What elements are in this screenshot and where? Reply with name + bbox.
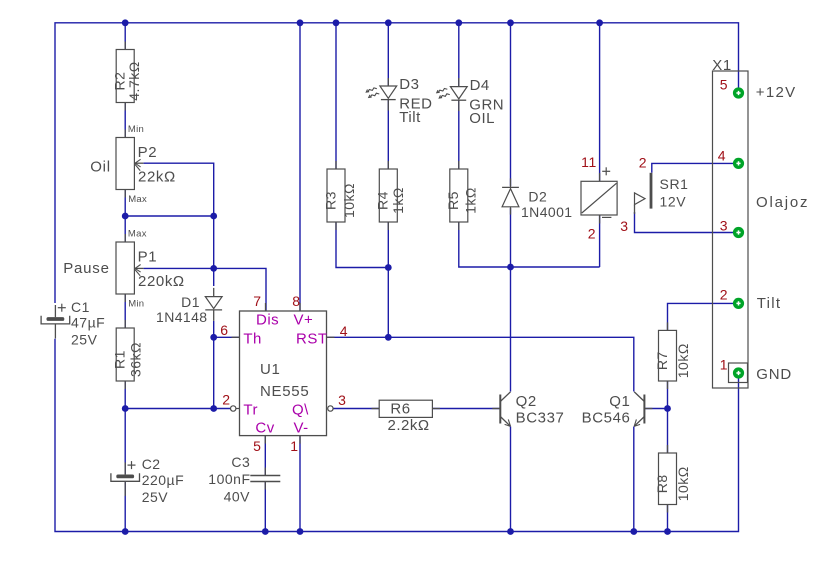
wire R3 bottom run	[336, 222, 388, 268]
relay coil SR1	[581, 167, 617, 223]
wire D3 to R4	[387, 100, 389, 169]
svg-text:10kΩ: 10kΩ	[675, 343, 691, 378]
node RST junction	[385, 334, 392, 341]
resistor R4	[375, 161, 406, 230]
svg-text:NE555: NE555	[260, 383, 309, 400]
wire P2 wiper run	[144, 163, 214, 268]
svg-text:2: 2	[720, 287, 728, 303]
IC U1 NE555 body	[232, 303, 335, 444]
wire Tr pin 2	[125, 408, 230, 410]
svg-text:R7: R7	[654, 351, 670, 370]
svg-text:P1: P1	[138, 248, 158, 265]
svg-text:Min: Min	[128, 298, 144, 309]
U1 pin names	[243, 312, 327, 437]
potentiometer P2	[116, 124, 176, 205]
svg-text:4: 4	[340, 323, 348, 339]
svg-text:2.2kΩ: 2.2kΩ	[388, 417, 430, 434]
svg-text:Min: Min	[128, 124, 144, 135]
resistor R8	[654, 445, 691, 513]
wire R5 bottom run	[459, 222, 600, 267]
svg-text:Th: Th	[243, 331, 262, 348]
wire node to D1	[213, 268, 215, 286]
wire node Tr to C2	[124, 409, 126, 475]
svg-text:D1: D1	[181, 294, 200, 310]
svg-text:Tr: Tr	[243, 401, 258, 418]
svg-text:5: 5	[720, 76, 728, 92]
wire rail to D2	[510, 23, 512, 186]
pin 2 inversion circle	[231, 406, 236, 411]
wire P1 to R1	[124, 294, 126, 328]
svg-text:10kΩ: 10kΩ	[675, 466, 691, 501]
capacitor C1	[41, 299, 105, 348]
svg-text:25V: 25V	[71, 332, 98, 348]
svg-text:Tilt: Tilt	[757, 295, 782, 312]
svg-text:25V: 25V	[142, 489, 169, 505]
svg-text:3: 3	[338, 392, 346, 408]
svg-text:R6: R6	[390, 401, 410, 418]
svg-text:1: 1	[290, 438, 298, 454]
X1 pad 3	[733, 227, 744, 238]
resistor R2	[112, 42, 143, 111]
node Q1 base junction	[664, 405, 671, 412]
potentiometer P1	[116, 228, 185, 309]
wire node to R8	[667, 409, 669, 454]
wire P2-P1 junction link	[125, 215, 214, 217]
svg-text:1N4001: 1N4001	[521, 204, 572, 220]
svg-text:Q\: Q\	[292, 401, 309, 418]
transistor Q2	[492, 392, 564, 427]
wire C2 to GND rail	[124, 482, 126, 532]
svg-text:V-: V-	[294, 420, 309, 437]
svg-text:Oil: Oil	[90, 159, 111, 176]
wire Dis net to pin 7	[214, 268, 266, 311]
capacitor C2	[111, 456, 184, 505]
wire R7 to Q1 base node	[667, 381, 669, 409]
wire relay contact to pad 3	[635, 212, 739, 233]
svg-text:X1: X1	[712, 57, 732, 74]
svg-text:10kΩ: 10kΩ	[341, 183, 357, 218]
svg-text:1N4148: 1N4148	[156, 309, 207, 325]
wire relay coil to node	[599, 215, 601, 267]
svg-text:100nF: 100nF	[208, 471, 250, 487]
wire pin 5 to C3	[264, 436, 266, 475]
wire Q2 emitter to GND	[510, 427, 512, 532]
X1 pad 2	[733, 298, 744, 309]
svg-text:D2: D2	[528, 189, 547, 205]
svg-text:2: 2	[222, 392, 230, 408]
node Dis junction	[210, 265, 217, 272]
wire pin 1 to GND rail	[299, 436, 301, 532]
wire Q1 base to divider	[644, 408, 667, 410]
svg-text:220kΩ: 220kΩ	[138, 273, 185, 290]
relay pin numbers	[581, 154, 647, 242]
svg-text:SR1: SR1	[660, 176, 689, 192]
svg-text:3: 3	[620, 218, 628, 234]
wire +12V top rail	[55, 23, 739, 303]
svg-text:47µF: 47µF	[71, 315, 105, 331]
svg-text:5: 5	[253, 438, 261, 454]
svg-text:6: 6	[220, 322, 228, 338]
svg-text:220µF: 220µF	[142, 472, 184, 488]
svg-text:8: 8	[292, 293, 300, 309]
svg-text:1kΩ: 1kΩ	[462, 187, 478, 214]
wire D1 to Th/Tr net	[213, 321, 215, 409]
wire rail to relay coil	[599, 23, 601, 182]
wire rail to R3	[335, 23, 337, 169]
svg-text:V+: V+	[294, 312, 314, 329]
svg-text:1kΩ: 1kΩ	[390, 187, 406, 214]
svg-text:Q1: Q1	[609, 393, 630, 410]
svg-text:40V: 40V	[224, 489, 251, 505]
svg-text:Q2: Q2	[516, 393, 537, 410]
pin 3 inversion circle	[328, 406, 333, 411]
svg-text:2: 2	[639, 155, 647, 171]
wire R6 to Q2 base	[432, 408, 500, 410]
capacitor C3	[208, 454, 280, 505]
LED D4	[436, 77, 504, 127]
svg-text:Olajoz: Olajoz	[756, 194, 809, 211]
resistor R5	[445, 161, 478, 230]
svg-text:C3: C3	[231, 454, 250, 470]
svg-text:OIL: OIL	[469, 110, 495, 127]
wire D2 to coil node	[510, 208, 512, 267]
junction dots bottom rail	[122, 528, 671, 535]
wire GND bottom rail	[55, 339, 739, 532]
svg-text:Dis: Dis	[256, 312, 279, 329]
resistor R3	[322, 161, 357, 230]
svg-text:BC546: BC546	[582, 410, 631, 427]
svg-text:Tilt: Tilt	[399, 109, 421, 126]
wire R8 to GND rail	[667, 505, 669, 532]
svg-text:P2: P2	[138, 144, 158, 161]
U1 name and value	[260, 361, 309, 400]
svg-text:R5: R5	[445, 191, 461, 210]
wire Th pin 6	[214, 336, 240, 338]
X1 pad 5	[733, 87, 744, 98]
svg-text:GND: GND	[756, 366, 792, 383]
svg-text:R8: R8	[654, 474, 670, 493]
resistor R7	[654, 322, 691, 389]
resistor R6	[372, 400, 441, 434]
transistor Q1	[582, 392, 653, 427]
svg-text:4: 4	[718, 147, 726, 163]
wire R1 to node Tr	[124, 381, 126, 409]
svg-text:7: 7	[253, 293, 261, 309]
svg-text:1: 1	[720, 357, 728, 373]
wire R4 to RST net	[387, 222, 389, 337]
svg-text:R1: R1	[112, 350, 128, 369]
node P2 Max junction	[122, 213, 129, 220]
svg-text:2: 2	[588, 225, 596, 241]
svg-text:C1: C1	[71, 299, 90, 315]
wire rail to D3	[387, 23, 389, 86]
svg-text:D3: D3	[399, 76, 419, 93]
svg-text:22kΩ: 22kΩ	[138, 168, 176, 185]
junction dots top rail	[122, 19, 603, 26]
svg-text:R3: R3	[322, 191, 338, 210]
svg-text:Cv: Cv	[255, 420, 274, 437]
wire RST net	[327, 337, 634, 391]
svg-text:Max: Max	[128, 194, 147, 205]
pin 2 stub	[236, 408, 240, 410]
svg-text:RST: RST	[296, 331, 328, 348]
wire P1 wiper run	[144, 267, 214, 269]
svg-text:36kΩ: 36kΩ	[128, 342, 144, 377]
wire rail to D4	[458, 23, 460, 87]
svg-text:11: 11	[581, 154, 597, 170]
wire Q1 emitter to GND	[633, 427, 635, 532]
svg-text:Pause: Pause	[63, 260, 110, 277]
resistor R1	[112, 320, 144, 389]
svg-text:C2: C2	[142, 456, 161, 472]
connector X1 body	[712, 57, 748, 388]
node Tr junction	[122, 405, 129, 412]
X1 pad 1	[733, 367, 744, 378]
node coil junction	[385, 264, 392, 271]
svg-text:R4: R4	[375, 191, 391, 210]
wire D4 to R5	[458, 100, 460, 169]
svg-text:4.7kΩ: 4.7kΩ	[126, 61, 142, 100]
diode D2	[502, 178, 572, 219]
wire P2 to P1	[124, 189, 126, 242]
svg-text:R2: R2	[112, 72, 128, 91]
svg-text:3: 3	[720, 218, 728, 234]
relay contact SR1	[635, 173, 689, 214]
svg-text:Max: Max	[128, 228, 147, 239]
svg-text:+12V: +12V	[756, 84, 797, 101]
wire relay contact to pad 4	[652, 163, 739, 172]
svg-text:D4: D4	[470, 77, 490, 94]
wire R7 to Tilt pad	[668, 303, 739, 330]
X1 pad 4	[733, 158, 744, 169]
svg-text:12V: 12V	[660, 193, 687, 209]
LED D3	[366, 76, 433, 126]
wire rail to pin 8	[299, 23, 301, 311]
svg-text:BC337: BC337	[516, 410, 565, 427]
svg-text:U1: U1	[260, 361, 281, 378]
wire C3 to GND rail	[264, 482, 266, 532]
U1 pin numbers	[220, 293, 348, 454]
diode D1	[156, 288, 222, 325]
wire coil node to Q2 collector	[510, 267, 512, 392]
node Th junction	[210, 334, 217, 341]
wire rail to R2	[124, 23, 126, 50]
wire R2 to P2	[124, 103, 126, 138]
wire pin 3 to R6	[333, 408, 380, 410]
X1 pin numbers	[718, 76, 728, 372]
